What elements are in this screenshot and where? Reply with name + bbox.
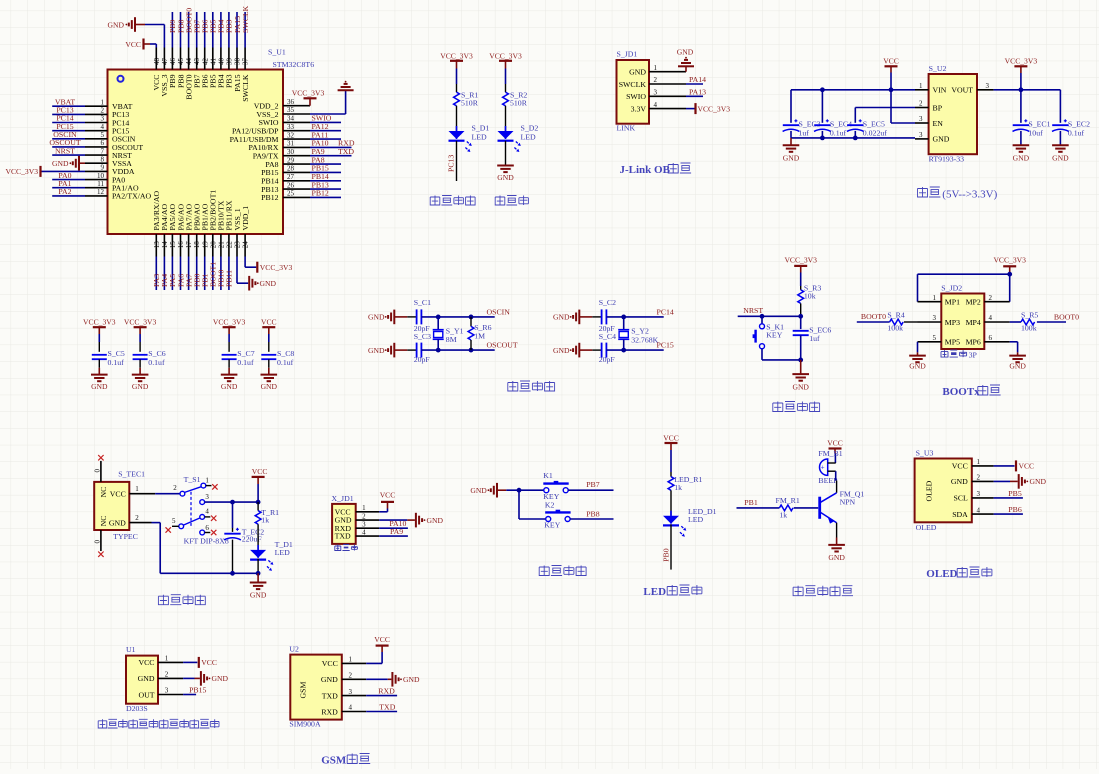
svg-text:NRST: NRST — [55, 146, 75, 155]
svg-text:S_R5: S_R5 — [1021, 310, 1038, 319]
svg-text:3: 3 — [165, 687, 169, 695]
wire net PA7 — [188, 257, 190, 291]
wire pin2 to GND — [994, 480, 1010, 482]
svg-text:RXD: RXD — [378, 686, 395, 695]
pin 25 PB12 — [283, 196, 310, 198]
wire net PA13 — [686, 95, 703, 97]
svg-text:VCC_3V3: VCC_3V3 — [489, 52, 522, 61]
pin 8 VSSA — [85, 162, 108, 164]
svg-text:100k: 100k — [887, 324, 903, 333]
svg-text:3: 3 — [101, 115, 105, 123]
capacitor S_C1 20pF — [416, 309, 418, 324]
svg-text:KEY: KEY — [766, 330, 782, 339]
svg-text:PA2/TX/AO: PA2/TX/AO — [112, 192, 152, 201]
svg-text:4: 4 — [977, 506, 981, 514]
wire net BOOT1 — [212, 257, 214, 291]
LED LED_D1 — [663, 516, 679, 524]
key K1 — [544, 488, 549, 493]
pin 3 VOUT — [977, 89, 994, 91]
pin 17 PA7/AO — [188, 234, 190, 257]
svg-text:T_S1: T_S1 — [184, 475, 201, 484]
svg-text:5: 5 — [101, 131, 105, 139]
pin 2 PC13 — [85, 113, 108, 115]
svg-text:LED: LED — [643, 586, 666, 598]
caption PIR module — [98, 719, 107, 728]
svg-text:3: 3 — [919, 115, 923, 123]
svg-text:5: 5 — [172, 517, 176, 525]
svg-text:BOOT0: BOOT0 — [861, 312, 886, 321]
pin 16 PA6/AO — [180, 234, 182, 257]
pin 45 PB8 — [180, 48, 182, 70]
wire net PB0 — [670, 524, 672, 569]
capacitor T_EC2 220uF — [232, 502, 234, 528]
caption download port — [335, 545, 341, 551]
svg-text:46: 46 — [169, 58, 177, 66]
svg-text:TXD: TXD — [379, 702, 395, 711]
wire net BOOT0 — [188, 12, 190, 48]
caption programmable-light — [430, 196, 440, 206]
svg-text:26: 26 — [287, 181, 295, 189]
pin 1 VBAT — [85, 105, 108, 107]
wire net PA10 — [379, 527, 408, 529]
ground below S_EC1 — [1013, 144, 1030, 146]
pin 3 EN — [915, 122, 929, 124]
wire to K2 — [518, 490, 520, 519]
switch contact 1 with no-connect — [201, 483, 206, 488]
pin 44 BOOT0 — [188, 48, 190, 70]
pin 1 VCC — [356, 511, 380, 513]
wire net OSCOUT — [52, 146, 85, 148]
pin 24 VDD_1 — [244, 234, 246, 257]
svg-text:GND: GND — [553, 313, 570, 322]
module S_U3 body — [915, 459, 972, 523]
svg-text:37: 37 — [242, 58, 250, 66]
svg-text:VCC: VCC — [380, 491, 396, 500]
pin 48 VCC — [155, 48, 157, 70]
svg-text:6: 6 — [989, 334, 993, 342]
svg-text:S_C2: S_C2 — [599, 298, 616, 307]
wire — [268, 334, 270, 342]
svg-text:GND: GND — [403, 675, 420, 684]
svg-text:1uf: 1uf — [809, 334, 820, 343]
svg-text:12: 12 — [97, 188, 105, 196]
wire — [98, 334, 100, 342]
capacitor lead — [592, 349, 601, 351]
pin 4 PC15 — [85, 130, 108, 132]
caption crystal circuit — [508, 381, 518, 391]
svg-text:1: 1 — [135, 485, 139, 493]
pins 5/6 MP5 MP6 — [918, 341, 942, 343]
svg-text:S_U3: S_U3 — [916, 448, 934, 457]
svg-text:VCC_3V3: VCC_3V3 — [124, 318, 157, 327]
capacitor S_C6 0.1uf — [133, 354, 148, 356]
pin 2 GND — [129, 522, 151, 524]
wire net PB6 — [994, 513, 1023, 515]
wire net PA14 — [686, 83, 703, 85]
wire buzzer to collector — [835, 471, 837, 480]
svg-text:10: 10 — [97, 172, 105, 180]
pin 3 SCL — [972, 497, 994, 499]
svg-text:GSM: GSM — [299, 682, 308, 699]
svg-text:SCL: SCL — [953, 494, 968, 503]
wire to buzzer — [834, 454, 836, 464]
wire OSCOUT — [421, 349, 494, 351]
svg-text:J-Link OB: J-Link OB — [620, 164, 671, 176]
wire net PA0 — [52, 179, 85, 181]
svg-text:GND: GND — [470, 486, 487, 495]
svg-text:2: 2 — [989, 294, 993, 302]
pin 1 VCC — [129, 493, 155, 495]
svg-text:PB0: PB0 — [661, 548, 670, 562]
resistor S_R2 510R — [503, 92, 509, 106]
capacitor S_C3 20pF — [416, 343, 418, 358]
switch contact 3 — [200, 500, 205, 505]
svg-text:2: 2 — [654, 76, 658, 84]
wire net PA9 — [310, 155, 352, 157]
LED S_D2 — [498, 131, 514, 139]
svg-text:S_Y2: S_Y2 — [631, 326, 649, 335]
ground below S_EC3 — [790, 138, 792, 145]
svg-text:3: 3 — [977, 490, 981, 498]
svg-text:U2: U2 — [289, 644, 299, 653]
wire net PB7 — [196, 12, 198, 48]
pin 36 VDD_2 — [283, 105, 310, 107]
LED T_D1 — [250, 550, 266, 558]
svg-text:VCC: VCC — [952, 462, 968, 471]
power VCC_3V3 at pin 24 — [244, 257, 246, 268]
svg-text:1k: 1k — [674, 483, 682, 492]
resistor S_R1 510R — [454, 92, 460, 106]
wire net PB1 — [204, 257, 206, 291]
svg-text:1: 1 — [654, 64, 658, 72]
svg-text:510R: 510R — [461, 99, 479, 108]
svg-text:NC: NC — [99, 516, 108, 527]
svg-text:BOOT0: BOOT0 — [1054, 312, 1079, 321]
pin 3 GND — [915, 138, 929, 140]
pin 20 PB2/BOOT1 — [212, 234, 214, 257]
svg-text:SWCLK: SWCLK — [619, 80, 647, 89]
wire pin1 to VCC — [366, 662, 382, 664]
ground at pin 47 VSS_3 — [135, 24, 145, 26]
svg-text:VCC_3V3: VCC_3V3 — [292, 88, 325, 97]
svg-text:9: 9 — [101, 164, 105, 172]
svg-text:OLED: OLED — [925, 480, 934, 501]
wire net PB15 — [183, 694, 196, 696]
pin 37 SWCLK — [244, 48, 246, 70]
svg-text:S_JD2: S_JD2 — [941, 284, 962, 293]
pin 28 PB15 — [283, 171, 310, 173]
svg-text:PB12: PB12 — [312, 189, 329, 198]
svg-text:2: 2 — [135, 514, 139, 522]
svg-text:S_EC5: S_EC5 — [863, 119, 885, 128]
wire key to gnd rail — [761, 349, 763, 360]
svg-text:VCC_3V3: VCC_3V3 — [83, 318, 116, 327]
connector X_JD1 body — [332, 504, 356, 544]
svg-text:GND: GND — [933, 135, 950, 144]
svg-text:41: 41 — [209, 58, 217, 66]
svg-text:11: 11 — [97, 180, 104, 188]
svg-text:S_U2: S_U2 — [929, 64, 947, 73]
capacitor lead — [592, 316, 601, 318]
svg-text:VCC_3V3: VCC_3V3 — [784, 256, 817, 265]
svg-text:GND: GND — [132, 382, 149, 391]
capacitor S_EC4 0.1uf — [821, 90, 823, 123]
svg-text:GND: GND — [783, 154, 800, 163]
pin 46 PB9 — [171, 48, 173, 70]
svg-text:33: 33 — [287, 123, 295, 131]
svg-text:3: 3 — [654, 89, 658, 97]
wire pin2 to GND — [183, 677, 194, 679]
wire GND rail — [791, 137, 915, 139]
pin 33 PA12/USB/DP — [283, 130, 310, 132]
svg-text:GND: GND — [109, 518, 126, 527]
ground — [98, 368, 100, 375]
svg-text:BOOTx: BOOTx — [942, 386, 980, 398]
switch contact 5 with no-connect — [179, 524, 184, 529]
svg-text:S_R4: S_R4 — [887, 310, 904, 319]
svg-text:FM_B1: FM_B1 — [818, 449, 842, 458]
pin 34 SWIO — [283, 121, 310, 123]
wire net TXD — [366, 711, 397, 713]
svg-text:2: 2 — [977, 474, 981, 482]
svg-text:OLED: OLED — [916, 523, 937, 532]
switch link dashed — [190, 492, 192, 527]
svg-text:SDA: SDA — [952, 510, 968, 519]
svg-text:VCC: VCC — [663, 434, 679, 443]
pin 0 bottom no-connect — [100, 530, 102, 551]
capacitor S_C8 0.1uf — [261, 354, 276, 356]
capacitor S_EC1 10uf — [1020, 90, 1022, 123]
svg-text:RT9193-33: RT9193-33 — [929, 155, 965, 164]
pin 15 PA5/AO — [171, 234, 173, 257]
pin 26 PB13 — [283, 188, 310, 190]
svg-text:GND: GND — [91, 382, 108, 391]
wire net PB8 — [180, 12, 182, 48]
wire net PA4 — [163, 257, 165, 291]
svg-text:TXD: TXD — [335, 532, 351, 541]
svg-text:25: 25 — [287, 190, 295, 198]
svg-text:1: 1 — [101, 98, 105, 106]
wire to ground — [505, 141, 507, 165]
svg-text:S_JD1: S_JD1 — [617, 50, 638, 59]
capacitor lead — [407, 316, 416, 318]
wire net PA2 — [52, 195, 85, 197]
resistor T_R1 1k — [257, 502, 259, 511]
svg-text:1: 1 — [348, 656, 352, 664]
svg-text:GND: GND — [629, 68, 646, 77]
power VCC_3V3 at pin VDDA — [41, 170, 86, 172]
svg-text:PB8: PB8 — [586, 509, 600, 518]
pin 40 PB4 — [220, 48, 222, 70]
pins 1/2 MP1 MP2 — [918, 301, 942, 303]
key S_K1 — [761, 316, 763, 323]
svg-text:D203S: D203S — [126, 704, 148, 713]
svg-text:31: 31 — [287, 140, 295, 148]
svg-text:(5V-->3.3V): (5V-->3.3V) — [942, 189, 997, 201]
svg-text:LED: LED — [688, 515, 704, 524]
svg-text:GND: GND — [497, 173, 514, 182]
svg-text:32: 32 — [287, 131, 295, 139]
svg-text:1: 1 — [933, 294, 937, 302]
wire net PB3 — [228, 12, 230, 48]
wire net PC14 — [52, 122, 85, 124]
svg-text:GND: GND — [321, 675, 338, 684]
wire net PA10 — [310, 146, 352, 148]
module U2 body — [290, 655, 342, 720]
svg-text:3P: 3P — [969, 351, 978, 360]
wire to K1 — [506, 489, 543, 491]
wire pin2 to GND — [366, 678, 388, 680]
svg-text:NPN: NPN — [840, 497, 856, 506]
svg-text:6: 6 — [205, 524, 209, 532]
wire net SWCLK — [244, 12, 246, 48]
module U1 body — [126, 656, 158, 704]
svg-text:13: 13 — [153, 241, 161, 249]
svg-text:23: 23 — [234, 241, 242, 249]
connector S_JD1 body — [617, 60, 650, 124]
ground at pin 5 — [917, 342, 919, 353]
resistor LED_R1 1k — [668, 477, 674, 491]
svg-text:100k: 100k — [1021, 324, 1037, 333]
svg-text:NC: NC — [99, 487, 108, 498]
LED S_D1 — [449, 131, 465, 139]
svg-text:OLED: OLED — [926, 568, 957, 580]
pin 35 VSS_2 — [283, 113, 310, 115]
wire VOUT rail — [994, 89, 1061, 91]
wire net PA3 — [155, 257, 157, 291]
pin 22 PB11/RX — [228, 234, 230, 257]
svg-text:PB12: PB12 — [261, 193, 278, 202]
svg-text:4: 4 — [989, 314, 993, 322]
svg-text:VCC: VCC — [125, 40, 141, 49]
svg-text:3: 3 — [362, 521, 366, 529]
key K2 — [546, 517, 551, 522]
svg-text:GND: GND — [1030, 477, 1047, 486]
svg-text:0: 0 — [93, 540, 101, 544]
svg-text:LED: LED — [472, 133, 488, 142]
wire pin1 to switch — [155, 493, 180, 495]
svg-text:VCC: VCC — [252, 467, 268, 476]
svg-text:SWCLK: SWCLK — [241, 5, 250, 33]
pin 39 PB3 — [228, 48, 230, 70]
pin 7 NRST — [85, 154, 108, 156]
svg-text:VCC: VCC — [110, 490, 126, 499]
svg-text:LINK: LINK — [617, 124, 636, 133]
svg-text:PB6: PB6 — [1008, 505, 1022, 514]
svg-text:29: 29 — [287, 156, 295, 164]
svg-text:4: 4 — [362, 529, 366, 537]
resistor S_R4 100k — [857, 321, 890, 323]
svg-text:OSCIN: OSCIN — [487, 307, 511, 316]
svg-text:47: 47 — [161, 58, 169, 66]
svg-text:GND: GND — [1013, 154, 1030, 163]
power VCC_3V3 at pin 4 — [686, 108, 695, 110]
svg-text:2: 2 — [173, 484, 177, 492]
wire PC14 — [606, 316, 663, 318]
switch contact 6 with no-connect — [200, 530, 205, 535]
svg-text:GND: GND — [250, 590, 267, 599]
svg-text:BP: BP — [933, 103, 943, 112]
wire — [228, 334, 230, 342]
wire contact3 to VCC node — [205, 501, 259, 503]
svg-text:42: 42 — [201, 58, 209, 66]
wire net PB5 — [212, 12, 214, 48]
wire net VBAT — [52, 105, 85, 107]
pin 10 PA0 — [85, 179, 108, 181]
svg-text:RXD: RXD — [321, 707, 338, 716]
wire pin2 to GND — [379, 519, 407, 521]
svg-text:1: 1 — [205, 476, 209, 484]
capacitor S_C5 0.1uf — [92, 354, 107, 356]
wire pin1 to VCC — [183, 661, 197, 663]
pin 1 VCC — [972, 465, 994, 467]
svg-text:SWCLK: SWCLK — [241, 74, 250, 102]
wire — [505, 69, 507, 85]
pin 6 OSCOUT — [85, 146, 108, 148]
svg-text:VCC: VCC — [138, 658, 154, 667]
pin 41 PB5 — [212, 48, 214, 70]
power VCC — [381, 501, 394, 503]
pin 3 RXD — [356, 527, 380, 529]
power VCC_3V3 at pin 36 — [309, 99, 311, 106]
svg-text:GND: GND — [828, 553, 845, 562]
svg-text:VIN: VIN — [933, 86, 947, 95]
svg-text:GND: GND — [260, 279, 277, 288]
svg-text:28: 28 — [287, 165, 295, 173]
svg-text:VCC_3V3: VCC_3V3 — [698, 104, 731, 113]
ground — [800, 360, 802, 374]
svg-text:2: 2 — [165, 671, 169, 679]
transistor FM_Q1 NPN — [818, 497, 821, 519]
resistor S_R5 100k — [1010, 321, 1021, 323]
pin 11 PA1/AO — [85, 187, 108, 189]
caption buzzer circuit — [793, 586, 803, 596]
ground — [257, 573, 259, 582]
pin 4 3.3V — [649, 108, 686, 110]
svg-text:3: 3 — [933, 314, 937, 322]
svg-text:0.022uf: 0.022uf — [863, 129, 887, 138]
wire — [800, 273, 802, 287]
pin 14 PA4/AO — [163, 234, 165, 257]
svg-text:MP4: MP4 — [966, 318, 981, 327]
wire pin1 to VCC — [994, 465, 1015, 467]
caption power circuit — [158, 595, 168, 605]
pin 4 TXD — [356, 535, 380, 537]
pin 30 PA9/TX — [283, 155, 310, 157]
svg-text:GND: GND — [677, 48, 694, 57]
pin 3 SWIO — [649, 95, 686, 97]
switch contact 2 — [180, 491, 185, 496]
svg-text:44: 44 — [185, 58, 193, 66]
svg-text:S_EC3: S_EC3 — [799, 119, 821, 128]
svg-text:SWIO: SWIO — [626, 92, 646, 101]
power VCC — [376, 644, 389, 646]
svg-text:TYPEC: TYPEC — [113, 532, 138, 541]
svg-text:S_D1: S_D1 — [472, 124, 490, 133]
svg-text:15: 15 — [169, 241, 177, 249]
jumper S_JD2 body — [941, 294, 984, 350]
svg-text:27: 27 — [287, 173, 295, 181]
svg-text:TXD: TXD — [322, 691, 338, 700]
svg-text:10k: 10k — [804, 292, 816, 301]
wire net PB0 — [196, 257, 198, 291]
wire net PB8 — [570, 518, 613, 520]
wire pin2 to gnd rail — [152, 522, 161, 524]
svg-text:48: 48 — [153, 58, 161, 66]
svg-text:22: 22 — [226, 241, 234, 249]
svg-text:NRST: NRST — [743, 306, 763, 315]
svg-text:GND: GND — [951, 477, 968, 486]
